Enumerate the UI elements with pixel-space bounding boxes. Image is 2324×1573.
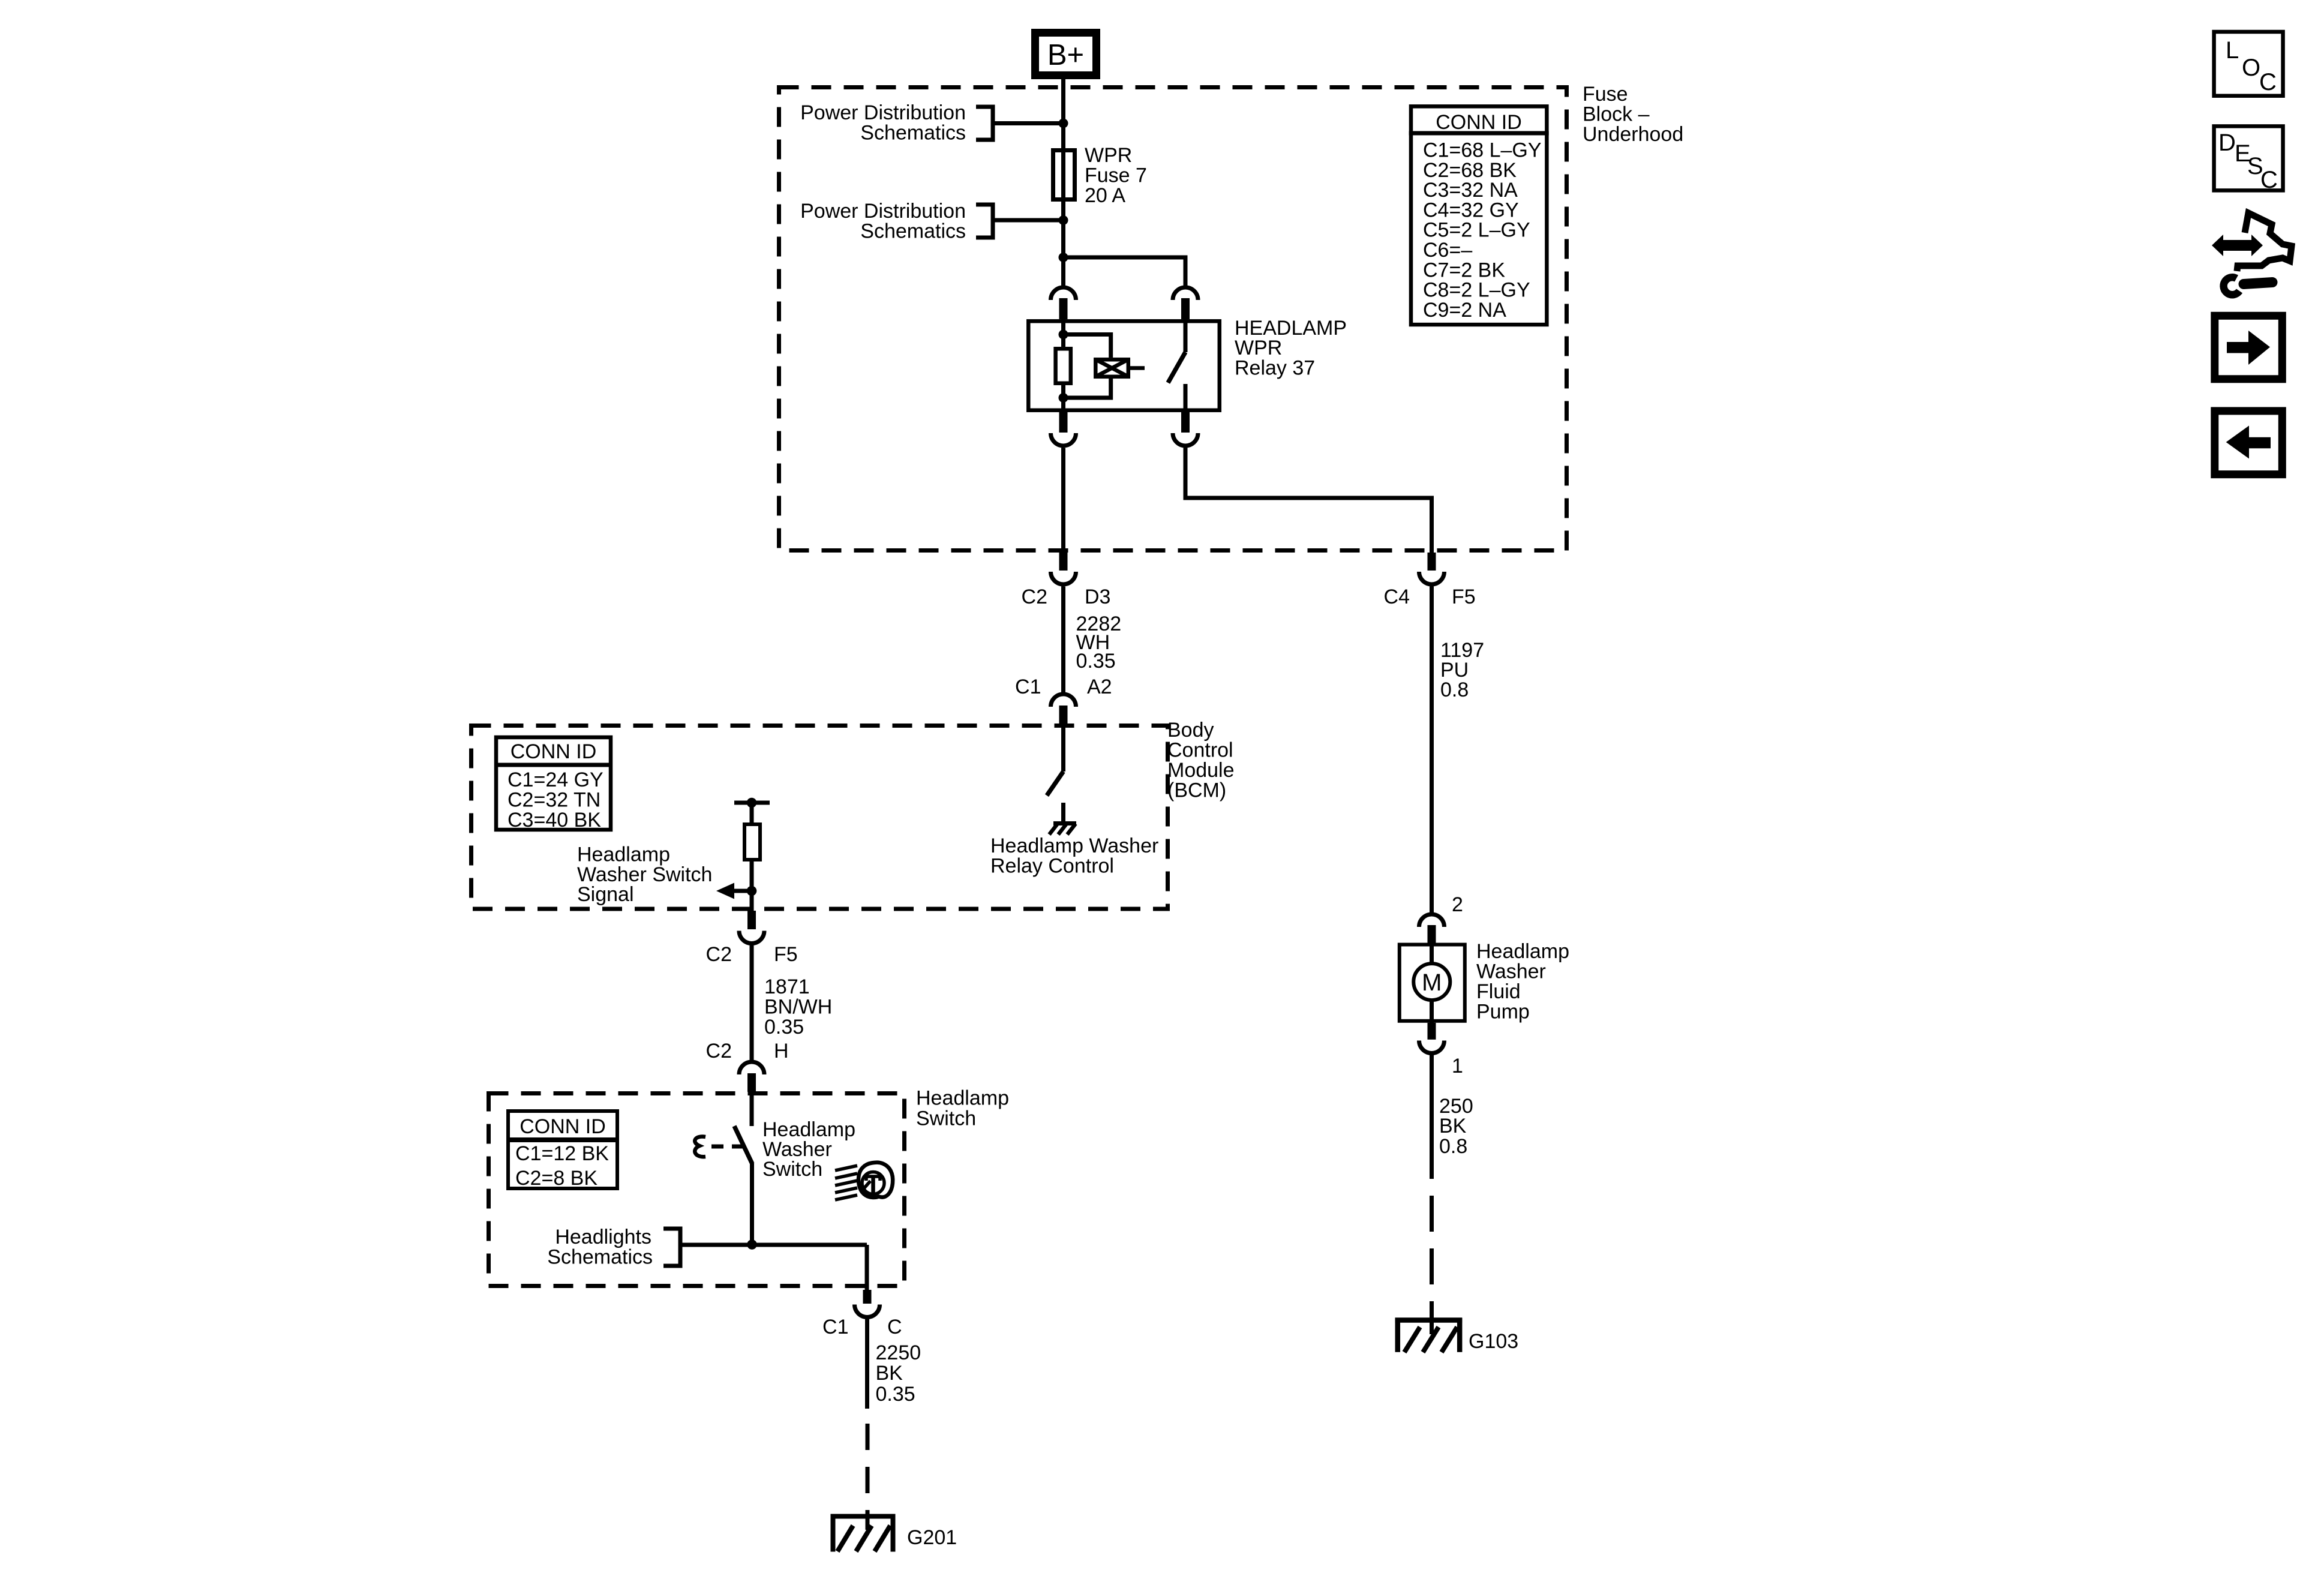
headlamp beam icon	[835, 1163, 893, 1200]
motor M circle	[1413, 963, 1450, 1000]
svg-text:C3=40 BK: C3=40 BK	[508, 809, 601, 831]
label headlamp washer switch	[762, 1118, 855, 1181]
svg-text:C2=32 TN: C2=32 TN	[508, 789, 600, 812]
wire headlights schematics row	[680, 1243, 867, 1247]
svg-text:C2=68 BK: C2=68 BK	[1423, 159, 1517, 182]
svg-text:(BCM): (BCM)	[1167, 779, 1226, 802]
label C2 D3	[1022, 586, 1111, 608]
svg-text:M: M	[1422, 969, 1442, 996]
power node B+	[1035, 33, 1097, 76]
svg-text:C: C	[887, 1316, 902, 1338]
label headlamp washer switch signal	[577, 843, 712, 906]
label C1 A2	[1015, 676, 1112, 698]
node junction 3	[1059, 253, 1068, 262]
label C2 H	[706, 1040, 789, 1062]
label 1871 BN/WH 0.35	[764, 975, 832, 1038]
label Fuse Block Underhood	[1583, 83, 1683, 146]
svg-text:C4=32 GY: C4=32 GY	[1423, 199, 1519, 221]
svg-text:Schematics: Schematics	[860, 220, 966, 243]
connector stub relay lower left	[1059, 412, 1068, 433]
switch mechanical link dashes	[711, 1145, 745, 1149]
node junction 1	[1059, 119, 1068, 128]
label WPR Fuse 7 20 A	[1085, 144, 1147, 207]
label headlamp switch	[916, 1087, 1009, 1130]
svg-text:A2: A2	[1087, 676, 1112, 698]
svg-text:L: L	[2226, 37, 2239, 64]
svg-text:Schematics: Schematics	[547, 1246, 653, 1269]
BCM internal ground	[1049, 824, 1076, 835]
wire relay internal left	[1061, 319, 1065, 347]
label power distribution schematics 1	[800, 101, 966, 145]
BCM driver switch wire	[1061, 726, 1065, 772]
svg-text:F5: F5	[774, 943, 798, 966]
body control module dashed box	[472, 726, 1168, 909]
svg-text:BN/WH: BN/WH	[764, 996, 832, 1019]
node relay internal bottom	[1059, 393, 1068, 403]
conn id table fuse block	[1409, 106, 1549, 325]
conn id table BCM	[494, 737, 612, 831]
svg-text:C7=2 BK: C7=2 BK	[1423, 259, 1505, 281]
label 2250 BK 0.35	[876, 1341, 921, 1406]
ground G201	[831, 1514, 896, 1552]
label headlamp washer relay control	[990, 834, 1158, 878]
wire 2282 WH	[1061, 587, 1065, 693]
wire to power distribution bracket 1	[995, 121, 1064, 125]
connector stub pump pin 1	[1428, 1023, 1436, 1040]
svg-text:O: O	[2242, 55, 2260, 81]
wire 250 BK	[1430, 1055, 1434, 1179]
connector stub relay pin left	[1059, 298, 1068, 319]
svg-text:Headlamp: Headlamp	[577, 843, 670, 866]
svg-text:D: D	[2218, 130, 2236, 156]
svg-text:Relay Control: Relay Control	[990, 855, 1114, 878]
svg-text:C1=68 L–GY: C1=68 L–GY	[1423, 139, 1542, 162]
connector stub relay pin right	[1181, 298, 1190, 319]
label power distribution schematics 2	[800, 200, 966, 243]
wire pump internal bottom	[1430, 999, 1434, 1023]
connector dome relay pin right	[1173, 287, 1198, 300]
svg-text:Module: Module	[1167, 759, 1235, 782]
svg-text:Relay 37: Relay 37	[1235, 357, 1315, 380]
wire branch to relay switch pin	[1064, 257, 1186, 286]
connector dome relay pin left	[1051, 287, 1076, 300]
connector stub pump pin 2	[1428, 925, 1436, 944]
svg-text:1: 1	[1452, 1055, 1463, 1077]
icon DESC box	[2214, 126, 2283, 193]
connector cup C2 D3	[1051, 572, 1076, 584]
icon LOC box	[2214, 32, 2283, 96]
connector dome C1 A2	[1051, 694, 1076, 707]
svg-text:0.8: 0.8	[1440, 679, 1469, 701]
svg-text:C6=–: C6=–	[1423, 239, 1472, 262]
svg-text:CONN ID: CONN ID	[520, 1115, 606, 1138]
svg-text:Power Distribution: Power Distribution	[800, 200, 966, 223]
svg-text:Headlights: Headlights	[555, 1226, 651, 1248]
svg-text:Switch: Switch	[916, 1107, 976, 1130]
svg-text:0.8: 0.8	[1439, 1135, 1467, 1158]
svg-text:C2: C2	[1022, 586, 1047, 608]
bracket power distribution 2	[976, 205, 993, 238]
svg-text:Control: Control	[1167, 739, 1233, 762]
resistor relay coil suppression	[1056, 349, 1071, 383]
svg-text:C1=24 GY: C1=24 GY	[508, 769, 603, 791]
relay box HEADLAMP WPR Relay 37	[1028, 321, 1220, 410]
svg-text:Headlamp: Headlamp	[916, 1087, 1009, 1110]
icon arrow previous box	[2215, 411, 2283, 475]
bracket headlights schematics	[663, 1229, 680, 1266]
label 250 BK 0.8	[1439, 1095, 1473, 1158]
svg-text:C4: C4	[1384, 586, 1410, 608]
connector dome pump pin 2	[1419, 914, 1445, 927]
node junction 2	[1059, 215, 1068, 225]
wire 1871 BN/WH	[750, 945, 754, 1061]
svg-text:0.35: 0.35	[1076, 650, 1116, 673]
label C4 F5	[1384, 586, 1476, 608]
label headlamp washer fluid pump	[1476, 940, 1569, 1023]
svg-text:BK: BK	[1439, 1115, 1467, 1137]
svg-text:B+: B+	[1047, 39, 1084, 71]
svg-text:Body: Body	[1167, 719, 1214, 742]
connector cup relay lower left	[1051, 433, 1076, 446]
svg-text:C2: C2	[706, 1040, 732, 1062]
svg-text:C1: C1	[822, 1316, 848, 1338]
wire switch upper pin	[750, 1092, 754, 1126]
BCM driver switch blade	[1047, 772, 1064, 795]
connector cup pump pin 1	[1419, 1041, 1445, 1053]
svg-text:Power Distribution: Power Distribution	[800, 101, 966, 124]
icon harness routing with wrench	[2212, 213, 2292, 295]
label headlights schematics	[547, 1226, 653, 1269]
svg-text:Headlamp: Headlamp	[1476, 940, 1569, 963]
svg-text:CONN ID: CONN ID	[1436, 111, 1522, 134]
svg-text:C3=32 NA: C3=32 NA	[1423, 179, 1518, 202]
connector stub fuse block exit right	[1428, 553, 1436, 571]
wire to BCM resistor	[750, 803, 754, 824]
wire switch box exit	[865, 1245, 869, 1290]
wire relay lower left down	[1061, 448, 1065, 553]
svg-text:Fuse 7: Fuse 7	[1085, 164, 1147, 187]
relay switch blade	[1168, 352, 1185, 383]
label C1 C	[822, 1316, 902, 1338]
svg-text:G201: G201	[907, 1526, 957, 1549]
svg-text:CONN ID: CONN ID	[511, 740, 597, 763]
wire to power distribution bracket 2	[995, 218, 1064, 223]
svg-text:C: C	[2260, 167, 2278, 193]
svg-text:0.35: 0.35	[764, 1016, 804, 1038]
svg-text:1871: 1871	[764, 975, 810, 998]
wire dashed to G201	[866, 1424, 870, 1514]
relay coil	[1095, 359, 1128, 377]
connector cup relay lower right	[1173, 433, 1198, 446]
connector stub relay lower right	[1181, 412, 1190, 433]
conn id table headlamp switch	[506, 1111, 619, 1190]
headlamp washer switch blade	[734, 1126, 752, 1164]
svg-text:Headlamp Washer: Headlamp Washer	[990, 834, 1158, 857]
signal arrow head	[716, 883, 734, 899]
connector stub switch exit	[863, 1290, 872, 1304]
wire 2250 BK	[865, 1319, 869, 1409]
signal arrow line	[734, 889, 752, 893]
connector cup C2 F5	[739, 931, 764, 944]
svg-text:C8=2 L–GY: C8=2 L–GY	[1423, 279, 1530, 302]
svg-text:Signal: Signal	[577, 883, 634, 906]
node switch output	[747, 1239, 757, 1250]
svg-text:C2: C2	[706, 943, 732, 966]
svg-text:D3: D3	[1085, 586, 1110, 608]
svg-text:Block –: Block –	[1583, 103, 1650, 126]
ground G103	[1395, 1317, 1463, 1352]
connector stub BCM exit	[747, 911, 756, 929]
label HEADLAMP WPR Relay 37	[1235, 317, 1347, 380]
icon arrow next box	[2215, 316, 2283, 379]
svg-text:C1: C1	[1015, 676, 1041, 698]
pump box	[1400, 945, 1465, 1021]
svg-text:2250: 2250	[876, 1341, 921, 1364]
svg-text:C2=8 BK: C2=8 BK	[515, 1167, 597, 1190]
wire to relay coil	[1064, 335, 1111, 358]
connector stub into headlamp switch	[747, 1073, 756, 1092]
relay switch pin wire	[1184, 319, 1188, 352]
svg-text:C9=2 NA: C9=2 NA	[1423, 299, 1506, 322]
wire pump internal top	[1430, 942, 1434, 965]
wire coil actuate stub	[1130, 366, 1145, 370]
svg-text:Washer: Washer	[1476, 960, 1546, 983]
switch detent symbol	[695, 1137, 705, 1157]
connector stub fuse block exit left	[1059, 553, 1068, 571]
BCM signal terminal T bar	[734, 801, 770, 805]
relay switch lower pin	[1184, 384, 1188, 412]
svg-text:2: 2	[1452, 893, 1463, 916]
svg-text:C5=2 L–GY: C5=2 L–GY	[1423, 219, 1530, 242]
BCM driver ground stem	[1061, 803, 1065, 822]
wire switch lower pin	[750, 1163, 754, 1245]
svg-text:0.35: 0.35	[876, 1383, 915, 1406]
label 1197 PU 0.8	[1440, 639, 1484, 701]
svg-text:Fuse: Fuse	[1583, 83, 1628, 106]
label 2282 WH 0.35	[1076, 613, 1122, 673]
svg-text:G103: G103	[1469, 1330, 1518, 1353]
svg-text:Underhood: Underhood	[1583, 123, 1683, 146]
svg-text:H: H	[774, 1040, 789, 1062]
wire dashed to G103	[1430, 1196, 1434, 1317]
wire B+ down to relay	[1061, 75, 1065, 286]
connector cup C1 C	[855, 1305, 880, 1317]
wire 1197 PU	[1430, 587, 1434, 913]
svg-text:Schematics: Schematics	[860, 122, 966, 145]
label Body Control Module BCM	[1167, 719, 1235, 802]
svg-text:C1=12 BK: C1=12 BK	[515, 1142, 609, 1165]
connector stub into BCM	[1059, 706, 1068, 726]
svg-text:WPR: WPR	[1235, 337, 1282, 359]
node relay internal top	[1059, 330, 1068, 340]
svg-text:Pump: Pump	[1476, 1001, 1530, 1023]
svg-text:WPR: WPR	[1085, 144, 1132, 167]
resistor BCM pull-up	[744, 824, 760, 860]
connector dome C2 H	[739, 1062, 764, 1074]
svg-text:F5: F5	[1452, 586, 1476, 608]
label C2 F5	[706, 943, 798, 966]
connector cup C4 F5	[1419, 572, 1445, 584]
fuse WPR Fuse 7 20A	[1053, 151, 1075, 200]
bracket power distribution 1	[976, 107, 993, 140]
wire coil bottom return	[1064, 379, 1111, 398]
fuse block underhood dashed box	[779, 88, 1567, 551]
wire relay lower right to pump feed	[1185, 448, 1432, 553]
svg-text:20 A: 20 A	[1085, 184, 1125, 207]
headlamp switch dashed box	[489, 1094, 905, 1286]
svg-text:C: C	[2259, 69, 2277, 95]
svg-text:Fluid: Fluid	[1476, 980, 1521, 1003]
svg-text:Switch: Switch	[762, 1158, 822, 1181]
wire resistor to node	[750, 861, 754, 912]
node BCM signal top	[747, 798, 757, 808]
svg-text:BK: BK	[876, 1362, 903, 1385]
node BCM signal	[747, 886, 757, 896]
wire resistor bottom	[1061, 385, 1065, 412]
